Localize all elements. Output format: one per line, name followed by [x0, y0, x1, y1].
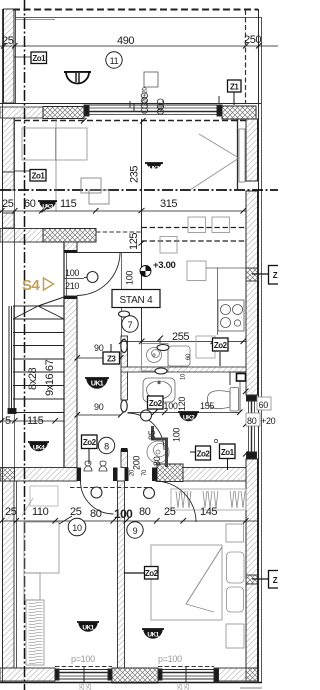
bathroom door pivot oval 1 [121, 340, 127, 353]
circled 8 [98, 437, 114, 453]
duct box bathroom [230, 372, 246, 385]
svg-text:25: 25 [5, 506, 17, 518]
svg-text:80: 80 [247, 416, 257, 426]
pillow 2 [227, 587, 244, 612]
leader Z1 [233, 92, 235, 105]
tiny circle hall [214, 439, 217, 442]
dim marks window top [81, 118, 146, 124]
coil symbol pair hall [84, 461, 92, 471]
bottom outer line [0, 682, 262, 684]
svg-text:210: 210 [65, 281, 79, 291]
UK1 room 10 [77, 622, 99, 632]
svg-text:80: 80 [152, 456, 162, 466]
bottom band [0, 668, 55, 681]
svg-text:315: 315 [160, 198, 177, 210]
dim line top [0, 45, 278, 47]
svg-text:125: 125 [128, 233, 140, 250]
bathroom west wall upper [121, 336, 128, 400]
coil symbols balcony window [141, 93, 163, 114]
hall dashed beam [70, 487, 152, 489]
bathroom west wall lower [121, 450, 128, 468]
bathroom door pivot oval 2 [121, 400, 127, 412]
svg-text:Zo2: Zo2 [83, 438, 97, 447]
stairs [8, 242, 77, 467]
window bottom room 10 [55, 667, 112, 682]
label box Zo2 bath [148, 396, 164, 409]
label box Z2 right edge bed [269, 571, 281, 589]
door room10 swing [81, 481, 114, 514]
svg-text:STAN 4: STAN 4 [119, 295, 153, 306]
label box Zo2 hall [82, 435, 98, 449]
leader Z2 bed right [252, 578, 269, 580]
label box Zo1 living [30, 170, 46, 182]
svg-text:115: 115 [60, 198, 77, 210]
svg-text:20: 20 [130, 469, 136, 476]
exterior wall left lower [3, 481, 15, 668]
label box Zo2 right edge kitchen [269, 266, 281, 285]
svg-text:11: 11 [110, 56, 119, 66]
stringer lines [8, 306, 10, 412]
pivot oval corridor top [119, 311, 130, 317]
door 100/210 [64, 268, 84, 291]
svg-text:80: 80 [139, 506, 151, 518]
balcony line top [15, 17, 261, 19]
svg-text:Z: Z [273, 271, 278, 280]
label box Zo2 kitchen [213, 338, 229, 351]
label box Zo1 top [31, 52, 47, 64]
svg-text:100: 100 [114, 507, 133, 521]
dim line row y211 [0, 210, 246, 212]
bed [151, 545, 222, 620]
svg-text:UK1: UK1 [91, 381, 104, 388]
dim line corridor y358 [77, 357, 121, 359]
svg-text:7: 7 [128, 320, 133, 330]
svg-text:UK3: UK3 [42, 205, 53, 211]
label box Zo2 bed [145, 567, 159, 580]
table kitchen [187, 261, 206, 281]
balcony edge dashed right [245, 10, 247, 104]
chair kitchen 1 [188, 217, 206, 233]
nightstand 1 [226, 524, 244, 542]
svg-text:UK1: UK1 [147, 632, 159, 639]
entry door knob [87, 272, 98, 283]
wardrobe room 10 with hangers [26, 600, 44, 665]
svg-text:25: 25 [185, 683, 191, 690]
sideboard room10 [30, 486, 58, 506]
svg-text:Zo1: Zo1 [32, 54, 46, 63]
window east (bathroom/WC) [247, 395, 257, 459]
leader Zo1 top [14, 56, 31, 58]
corridor top crosshatch block [43, 229, 96, 243]
circled 7 [122, 316, 138, 332]
dim 80+20 window east [246, 413, 276, 426]
pivot oval nook top [157, 345, 169, 351]
right wall crosshatch joints [246, 268, 258, 281]
top wall band [0, 103, 261, 105]
svg-text:90: 90 [94, 343, 104, 353]
svg-text:25: 25 [80, 683, 86, 690]
svg-text:10: 10 [181, 373, 187, 380]
stairwell east wall line [63, 242, 65, 467]
svg-text:+3.00: +3.00 [153, 260, 176, 271]
corridor west wall below door [64, 296, 77, 468]
crosshatch block mid band [157, 464, 183, 482]
WC [207, 388, 238, 412]
corridor west wall tab [64, 242, 77, 253]
door room9 knob [144, 488, 155, 499]
right exterior wall [246, 119, 258, 181]
svg-text:200: 200 [158, 102, 164, 112]
jambs mid band [77, 468, 81, 482]
svg-text:9: 9 [133, 526, 138, 536]
pivot oval nook band [155, 368, 167, 374]
leader washer box [159, 338, 161, 343]
svg-text:110: 110 [32, 506, 49, 518]
svg-text:250: 250 [244, 34, 261, 46]
svg-text:220+20: 220+20 [143, 87, 149, 106]
svg-text:115: 115 [27, 415, 44, 427]
svg-text:9x16.67: 9x16.67 [44, 359, 56, 396]
svg-text:Zo2: Zo2 [197, 450, 211, 459]
svg-text:Z: Z [273, 576, 278, 585]
S4 orange label [22, 277, 54, 294]
svg-text:100: 100 [172, 428, 182, 442]
dim line bathroom top y341 [122, 341, 247, 343]
nightstand 2 [226, 624, 244, 648]
svg-text:Zo1: Zo1 [32, 172, 46, 181]
leader Zo1 wc [227, 459, 229, 470]
exterior wall left upper [4, 9, 15, 103]
leader circle10 [59, 516, 72, 524]
svg-text:Zo2: Zo2 [145, 569, 159, 578]
balcony door leaf [239, 129, 245, 182]
leader Z3 [110, 344, 112, 352]
window bottom room 9 [158, 667, 219, 682]
door room10 knob [91, 487, 102, 498]
floor above dashed y121 [15, 120, 246, 122]
shower wall [153, 426, 167, 467]
column top crosshatch [43, 107, 84, 119]
left edge line [2, 9, 4, 682]
svg-text:90: 90 [94, 402, 104, 412]
svg-text:100: 100 [164, 401, 178, 411]
leader Zo1 living [14, 170, 30, 172]
roof overhang dashed top [13, 9, 258, 11]
svg-text:p=100: p=100 [71, 654, 95, 664]
label box Zo2 shower [196, 446, 211, 460]
grid line dash-dot vertical A [24, 0, 26, 690]
junction squares niche [81, 178, 101, 193]
rooms divider wall [118, 481, 125, 668]
UK1 corridor [85, 378, 109, 388]
corner crosshatch top right [222, 106, 256, 119]
svg-text:25: 25 [70, 506, 82, 518]
bathroom north band [121, 367, 246, 372]
label box Zo1 wc [220, 444, 236, 459]
svg-text:+20: +20 [261, 416, 276, 426]
circled 11 [106, 52, 122, 68]
svg-text:Zo1: Zo1 [221, 448, 235, 457]
dim 60 window east [257, 397, 271, 410]
leader diagonal room10 [22, 498, 33, 516]
leader Zo2 kitchen right [252, 273, 269, 275]
STAN 4 box [112, 290, 160, 308]
sink bathroom [143, 378, 175, 402]
chair kitchen 2 [212, 217, 230, 233]
svg-text:200: 200 [132, 456, 142, 470]
vert dim marks x141 [139, 208, 145, 246]
UK1 living [145, 163, 163, 173]
UK4 stairwell [28, 442, 49, 452]
svg-text:8: 8 [104, 442, 109, 452]
circled 10 [68, 518, 86, 536]
shower drain [147, 441, 169, 463]
dim marks bath window [243, 389, 249, 457]
svg-text:Z3: Z3 [107, 355, 116, 364]
label box Z1 [228, 80, 242, 92]
bathroom door swing [128, 413, 165, 450]
leader Zo2 kitchen [219, 352, 221, 366]
svg-text:10: 10 [72, 523, 82, 533]
UK2 bathroom [178, 412, 199, 422]
entry door swing [77, 253, 120, 296]
level marker +3.00 [140, 266, 151, 277]
WC niche wall line [239, 372, 241, 412]
dim line bathroom y413 [128, 412, 241, 414]
svg-text:25: 25 [164, 506, 176, 518]
svg-text:100: 100 [65, 268, 79, 278]
leader Zo2 hall [88, 449, 90, 464]
balcony door swing V [190, 134, 239, 190]
exterior wall left mid [3, 118, 15, 172]
svg-text:5: 5 [5, 415, 11, 427]
kitchen counter [217, 268, 219, 335]
svg-text:8x28: 8x28 [27, 367, 39, 390]
svg-text:145: 145 [200, 506, 217, 518]
mid wall band y468 [0, 468, 15, 482]
svg-text:60: 60 [24, 198, 36, 210]
svg-text:235: 235 [129, 166, 141, 183]
dim line stairs y421 [0, 420, 64, 422]
svg-text:Zo2: Zo2 [149, 399, 163, 408]
svg-text:85: 85 [147, 430, 157, 440]
desk room 10 [24, 522, 59, 573]
svg-text:p=100: p=100 [158, 654, 182, 664]
circled 9 [127, 522, 143, 538]
svg-text:25: 25 [178, 683, 184, 690]
svg-text:UK4: UK4 [33, 445, 45, 452]
UK3 [38, 201, 57, 211]
UK1 room 9 [142, 629, 164, 639]
leader Zo2 bath [190, 451, 196, 453]
balcony square symbol [144, 72, 158, 87]
svg-text:60: 60 [186, 353, 192, 360]
door room9 swing [155, 481, 196, 522]
dashed above window 10 [55, 666, 112, 668]
niche dashed lines [96, 231, 142, 233]
svg-text:UK1: UK1 [82, 625, 94, 632]
stove [218, 300, 244, 331]
kitchen dashed beams [142, 227, 247, 229]
svg-text:S4: S4 [22, 277, 41, 294]
stair break chevron [13, 297, 64, 319]
leader Zo2 bed [124, 572, 145, 574]
door jambs entry [64, 250, 77, 253]
dim line rooms y521 [2, 520, 257, 522]
wardrobe room 9 with hangers [171, 489, 246, 510]
svg-text:Z1: Z1 [230, 83, 239, 92]
svg-text:25: 25 [87, 683, 93, 690]
svg-text:Zo2: Zo2 [214, 341, 228, 350]
svg-text:70: 70 [142, 469, 148, 476]
UK symbol balcony [64, 72, 91, 84]
svg-text:255: 255 [172, 331, 189, 343]
svg-text:80: 80 [90, 508, 102, 520]
right edge double line [258, 9, 260, 682]
svg-text:25: 25 [2, 198, 14, 210]
grid line dash-dot horizontal B [0, 189, 278, 191]
svg-text:100: 100 [125, 271, 135, 285]
svg-text:490: 490 [117, 35, 134, 47]
svg-text:60: 60 [259, 400, 269, 410]
svg-text:UK2: UK2 [183, 415, 195, 422]
chair kitchen 3 [160, 237, 177, 254]
pillow 1 [227, 552, 245, 583]
svg-text:25: 25 [2, 35, 14, 47]
dashed above window 9 [158, 666, 214, 668]
svg-text:UK1: UK1 [149, 167, 160, 173]
stairwell top band [0, 229, 43, 243]
bathroom door knob [141, 410, 152, 421]
svg-text:155: 155 [200, 401, 214, 411]
washing machine [142, 344, 191, 372]
window top (living room, north) [84, 96, 222, 116]
label box Z3 [103, 352, 120, 364]
dim line corridor y415 [77, 414, 121, 416]
living interior lines [55, 118, 57, 211]
svg-text:120: 120 [177, 397, 187, 411]
dryer rect 2 [196, 336, 215, 358]
sofa living room [22, 128, 87, 160]
